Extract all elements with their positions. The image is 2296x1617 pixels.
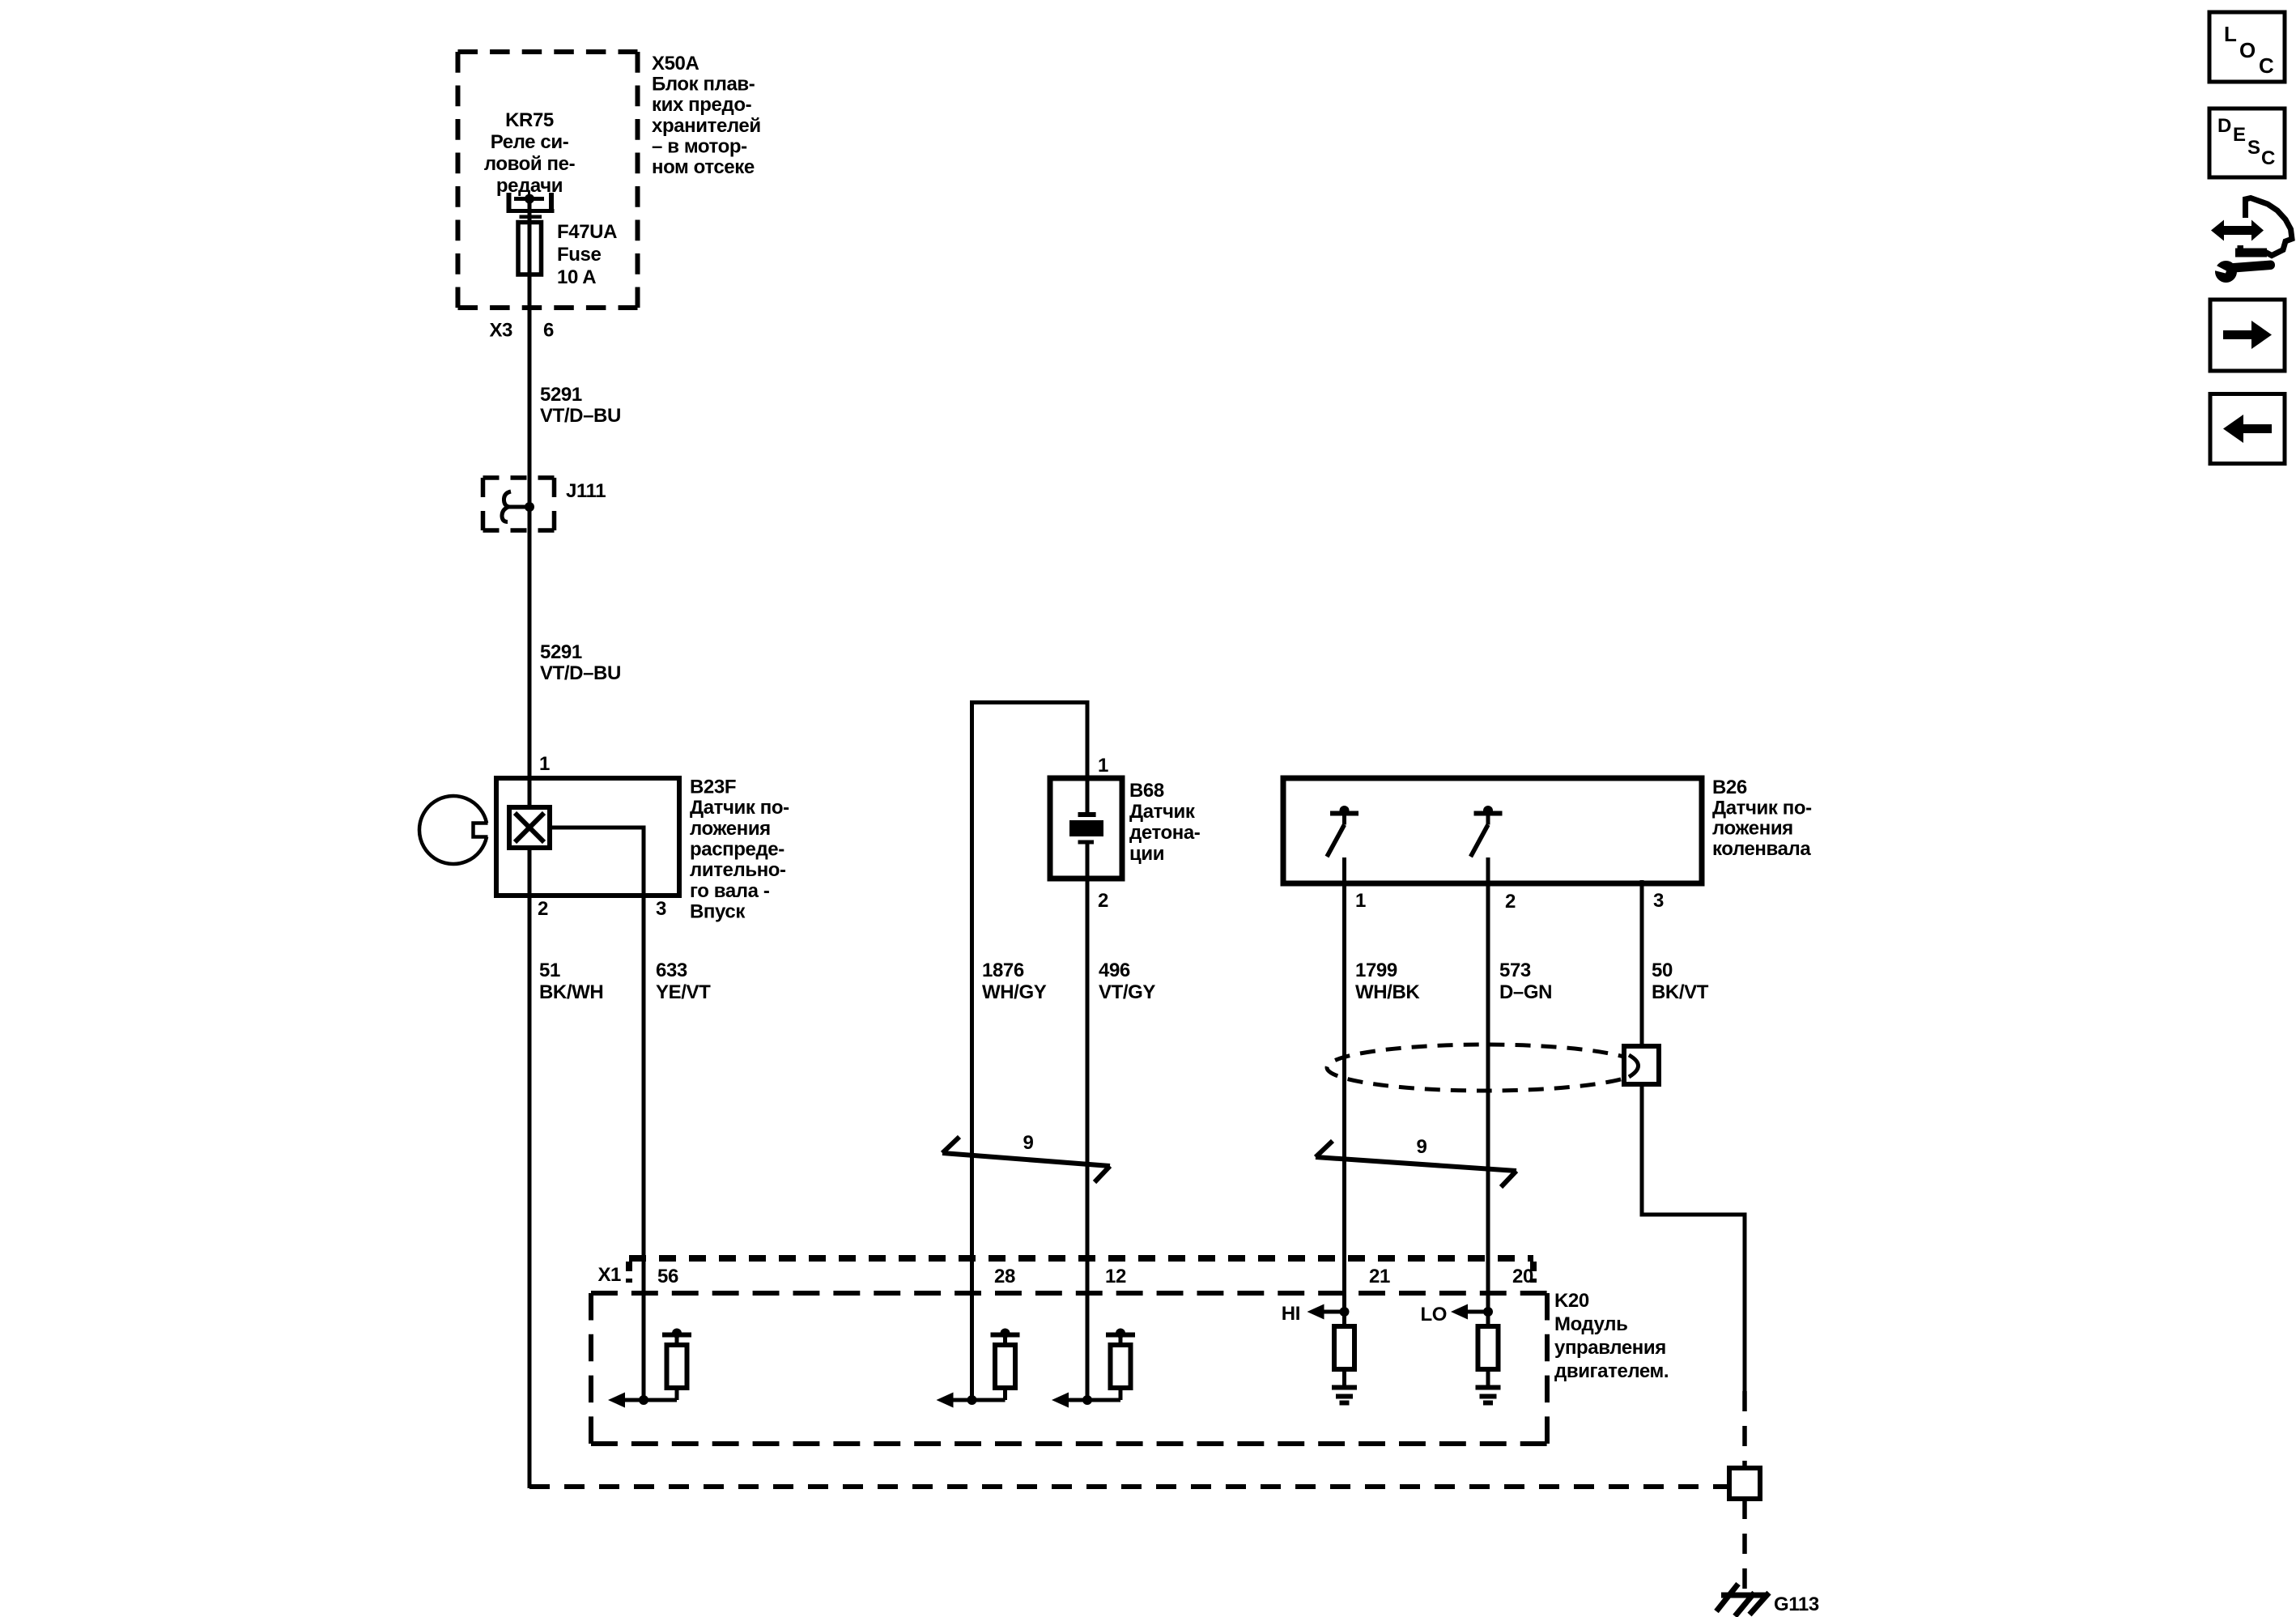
fuse block X50A dashed box [458,52,638,308]
dashed drain wire to G113 [529,1484,1729,1489]
icon DESC box [2209,109,2285,177]
svg-text:D: D [2217,115,2231,137]
K20 pin 20 LO input [1451,1304,1501,1403]
svg-text:WH/GY: WH/GY [982,981,1047,1003]
camshaft sensor B23F box [496,778,679,896]
svg-text:Модуль: Модуль [1554,1313,1628,1335]
svg-text:Датчик по-: Датчик по- [690,797,789,819]
B26 switch element 1 [1327,806,1358,857]
svg-text:E: E [2233,124,2246,146]
svg-text:496: 496 [1099,960,1130,981]
svg-text:хранителей: хранителей [652,115,761,137]
svg-text:9: 9 [1023,1132,1034,1154]
svg-text:1: 1 [1355,890,1366,912]
svg-text:2: 2 [1098,890,1108,912]
svg-text:коленвала: коленвала [1712,838,1811,860]
svg-text:редачи: редачи [496,175,563,197]
svg-text:G113: G113 [1774,1594,1819,1615]
crankshaft sensor B26 box [1283,778,1702,883]
wire: B23F internal pin3 [550,826,646,830]
svg-text:ложения: ложения [690,818,771,840]
svg-text:YE/VT: YE/VT [656,981,711,1003]
svg-text:– в мотор-: – в мотор- [652,135,747,157]
svg-text:B26: B26 [1712,777,1747,798]
svg-text:6: 6 [543,320,554,342]
K20 pin 21 HI input [1307,1304,1358,1403]
svg-text:X50A: X50A [652,53,699,74]
trigger wheel circle [419,796,488,864]
sensor element X-square [509,807,550,848]
splice square [1729,1468,1760,1499]
svg-text:1: 1 [1098,755,1108,777]
svg-text:Реле си-: Реле си- [491,131,569,153]
svg-text:C: C [2259,53,2274,78]
svg-text:20: 20 [1512,1266,1533,1287]
svg-text:9: 9 [1417,1136,1427,1158]
svg-text:VT/GY: VT/GY [1099,981,1155,1003]
svg-text:BK/VT: BK/VT [1652,981,1709,1003]
svg-text:1: 1 [539,753,550,775]
svg-text:51: 51 [539,960,560,981]
svg-text:KR75: KR75 [505,109,554,131]
svg-text:ловой пе-: ловой пе- [484,153,576,175]
svg-text:HI: HI [1282,1303,1300,1325]
svg-text:28: 28 [994,1266,1015,1287]
icon double arrow + bracket + wrench [2211,198,2292,283]
svg-text:двигателем.: двигателем. [1554,1360,1669,1382]
svg-text:1799: 1799 [1355,960,1397,981]
icon back arrow box [2210,394,2285,464]
svg-text:D–GN: D–GN [1499,981,1552,1003]
svg-text:Датчик: Датчик [1129,801,1196,823]
svg-text:управления: управления [1554,1337,1666,1359]
wire 51 BK/WH from B23F pin 2 [528,848,532,1488]
svg-text:21: 21 [1369,1266,1390,1287]
svg-text:1876: 1876 [982,960,1024,981]
svg-text:X3: X3 [489,320,512,342]
knock sensor element [1069,815,1103,842]
svg-text:2: 2 [538,898,548,920]
svg-text:распреде-: распреде- [690,839,784,861]
svg-text:3: 3 [656,898,666,920]
B26 switch element 2 [1471,806,1503,857]
svg-text:Впуск: Впуск [690,901,746,923]
svg-text:Датчик по-: Датчик по- [1712,797,1812,819]
svg-text:го вала -: го вала - [690,880,770,902]
svg-text:5291: 5291 [540,384,582,406]
fuse F47UA [518,217,542,274]
svg-text:K20: K20 [1554,1290,1589,1312]
svg-text:2: 2 [1505,891,1516,913]
svg-text:10 A: 10 A [557,266,596,288]
twisted pair crossing 9 (B68 wires) [942,1137,1110,1182]
label KR75 [484,109,576,197]
svg-text:S: S [2247,137,2260,159]
svg-text:X1: X1 [597,1264,621,1286]
svg-text:50: 50 [1652,960,1673,981]
splice J111 symbol [502,491,534,522]
svg-text:56: 56 [657,1266,678,1287]
K20 pin 56 termination [608,1329,691,1408]
shield termination box on wire 50 [1624,1046,1659,1084]
wire 50 BK/VT from B26 pin 3 [1640,880,1747,1391]
svg-text:BK/WH: BK/WH [539,981,603,1003]
svg-text:ции: ции [1129,843,1164,865]
svg-text:B68: B68 [1129,780,1164,802]
svg-text:J111: J111 [566,480,606,502]
twisted pair crossing 9 (B26 wires) [1316,1141,1516,1187]
svg-text:лительно-: лительно- [690,859,786,881]
svg-text:B23F: B23F [690,777,736,798]
svg-text:ких предо-: ких предо- [652,94,752,116]
svg-text:5291: 5291 [540,641,582,663]
knock sensor B68 box [1050,778,1122,879]
K20 module dashed box [591,1293,1547,1444]
wire 496 VT/GY to K20 pin 12 [1086,844,1090,1400]
icon LOC box [2209,12,2285,82]
icon forward arrow box [2210,300,2285,371]
wire: relay to B23F pin 1 [528,199,532,808]
wire 633 YE/VT to K20 pin 56 [642,828,646,1400]
wire 573 D-GN to K20 pin 20 [1486,857,1490,1312]
svg-text:детона-: детона- [1129,822,1201,844]
svg-text:12: 12 [1105,1266,1126,1287]
svg-text:ном отсеке: ном отсеке [652,156,755,178]
icon letters [2224,22,2274,78]
connector J111 dashed box [483,478,555,530]
svg-text:633: 633 [656,960,687,981]
svg-text:VT/D–BU: VT/D–BU [540,405,621,427]
svg-text:C: C [2261,147,2275,169]
svg-text:Fuse: Fuse [557,244,601,266]
svg-text:573: 573 [1499,960,1531,981]
dashed lead to G113 [1742,1499,1747,1590]
K20 connector X1 dotted row [629,1258,1533,1283]
shield ellipse (dashed) [1327,1045,1643,1091]
svg-text:3: 3 [1653,890,1664,912]
ground G113 [1716,1584,1769,1616]
svg-text:O: O [2239,38,2256,62]
svg-text:ложения: ложения [1712,818,1793,840]
svg-text:VT/D–BU: VT/D–BU [540,662,621,684]
dashed wire 50 to ground square [1742,1391,1747,1470]
svg-text:F47UA: F47UA [557,221,617,243]
svg-text:L: L [2224,22,2237,46]
wire 1799 WH/BK to K20 pin 21 [1342,857,1346,1312]
K20 pin 28 termination [937,1329,1020,1408]
svg-text:Блок плав-: Блок плав- [652,74,755,96]
svg-text:LO: LO [1420,1304,1447,1326]
svg-text:WH/BK: WH/BK [1355,981,1420,1003]
wire: B68 pin1 riser 1876 WH/GY [972,700,1090,1400]
K20 pin 12 termination [1052,1329,1135,1408]
relay KR75 contact [507,193,555,212]
